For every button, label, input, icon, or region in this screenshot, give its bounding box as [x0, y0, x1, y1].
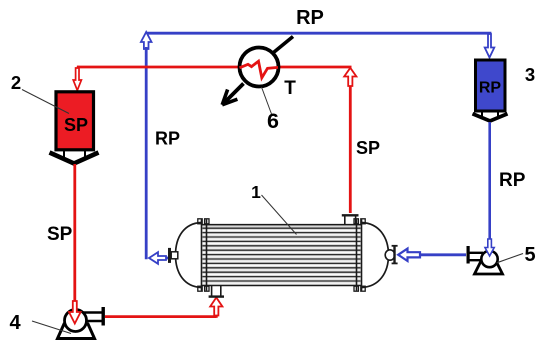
wire: SP pump 4 discharge horizontal (red) [105, 315, 216, 318]
cooler element 6: diagonal line upper part [274, 37, 294, 53]
tank 2 (SP reservoir) [56, 92, 94, 150]
wire: RP riser left (blue vertical x=146) [145, 47, 148, 259]
cooler element 6: diagonal line lower part with arrowhead [223, 84, 244, 105]
svg-text:RP: RP [479, 80, 502, 97]
svg-text:6: 6 [267, 109, 279, 133]
flow arrow blue left into exchanger right nozzle [398, 249, 420, 261]
right nozzle (tube side inlet) [385, 250, 395, 260]
svg-text:RP: RP [296, 7, 324, 29]
svg-text:1: 1 [251, 182, 261, 202]
pump 5 suction stub lines [469, 252, 483, 254]
pump 4 flange [102, 307, 105, 326]
left head [176, 223, 202, 288]
wire: RP from tank 3 down to pump 5 [488, 122, 491, 247]
svg-text:SP: SP [47, 224, 73, 245]
tank 3 (RP reservoir) [476, 60, 506, 111]
pump 5 flange [467, 246, 470, 264]
label 1 pointer line [262, 195, 297, 235]
tube field background [203, 226, 361, 285]
right head [362, 223, 389, 288]
wire: SP top header (red horizontal y=67) [77, 66, 240, 69]
svg-text:2: 2 [11, 72, 21, 93]
wire: RP stub from exchanger left nozzle [157, 257, 169, 260]
svg-text:RP: RP [499, 170, 526, 191]
wire: SP riser right (red x=350) [349, 84, 352, 213]
pump 5 casing circle [481, 251, 497, 267]
flow arrow red down into pump 4 [69, 301, 81, 324]
wire: RP pump 5 discharge to exchanger (blue horizontal) [414, 253, 466, 256]
flow arrow red up into exchanger bottom nozzle [210, 298, 222, 316]
flow arrow blue up at RP riser top [141, 32, 152, 49]
label 6 pointer line [262, 87, 272, 114]
pump 4 [58, 307, 105, 339]
pump 4 stand [58, 324, 95, 339]
flow arrow blue left at exchanger left outlet [149, 252, 166, 264]
right tube sheet [356, 220, 358, 291]
top nozzle (shell inlet) [344, 217, 346, 225]
svg-text:SP: SP [356, 138, 380, 158]
svg-text:5: 5 [524, 244, 535, 266]
svg-text:3: 3 [525, 64, 535, 85]
svg-text:T: T [284, 78, 296, 99]
cooler element 6: circle [240, 48, 279, 87]
cooler element 6: red zigzag [240, 61, 279, 78]
left nozzle (tube side outlet) [171, 252, 178, 259]
pump 5 [467, 246, 503, 274]
label 2 pointer line [22, 90, 69, 114]
flow arrow blue down into tank 3 [485, 34, 495, 58]
flow arrow blue down into pump 5 [485, 239, 494, 256]
tank 2 outlet funnel [50, 153, 99, 164]
pump 4 casing circle [65, 310, 87, 332]
label 4 pointer line [32, 321, 71, 334]
pump 5 stand [475, 262, 503, 274]
flow arrow red up joining SP header [344, 68, 356, 86]
bottom nozzle (shell outlet) [211, 286, 213, 296]
svg-text:RP: RP [155, 129, 180, 149]
svg-text:4: 4 [9, 312, 21, 334]
wire: SP corner down to tank 2 [77, 66, 80, 72]
pump 4 discharge stub lines [83, 311, 102, 314]
left tube sheet [201, 220, 203, 291]
svg-text:SP: SP [64, 115, 88, 135]
shell top line [201, 224, 362, 226]
flow arrow red down into tank 2 [73, 68, 81, 90]
label 5 pointer line [497, 254, 523, 263]
heat exchanger 1 [168, 215, 398, 296]
left tube sheet ears [198, 219, 202, 224]
wire: RP top header (blue horizontal) [146, 33, 490, 46]
tank 3 outlet funnel [473, 114, 508, 121]
tube field [203, 228, 361, 281]
wire: SP from tank 2 down to pump 4 [73, 164, 76, 303]
right tube sheet ears [354, 219, 358, 224]
wire: SP riser into exchanger bottom nozzle [215, 312, 218, 318]
arrowhead of diagonal (open barbs) [222, 90, 227, 105]
shell bottom line [201, 285, 362, 287]
